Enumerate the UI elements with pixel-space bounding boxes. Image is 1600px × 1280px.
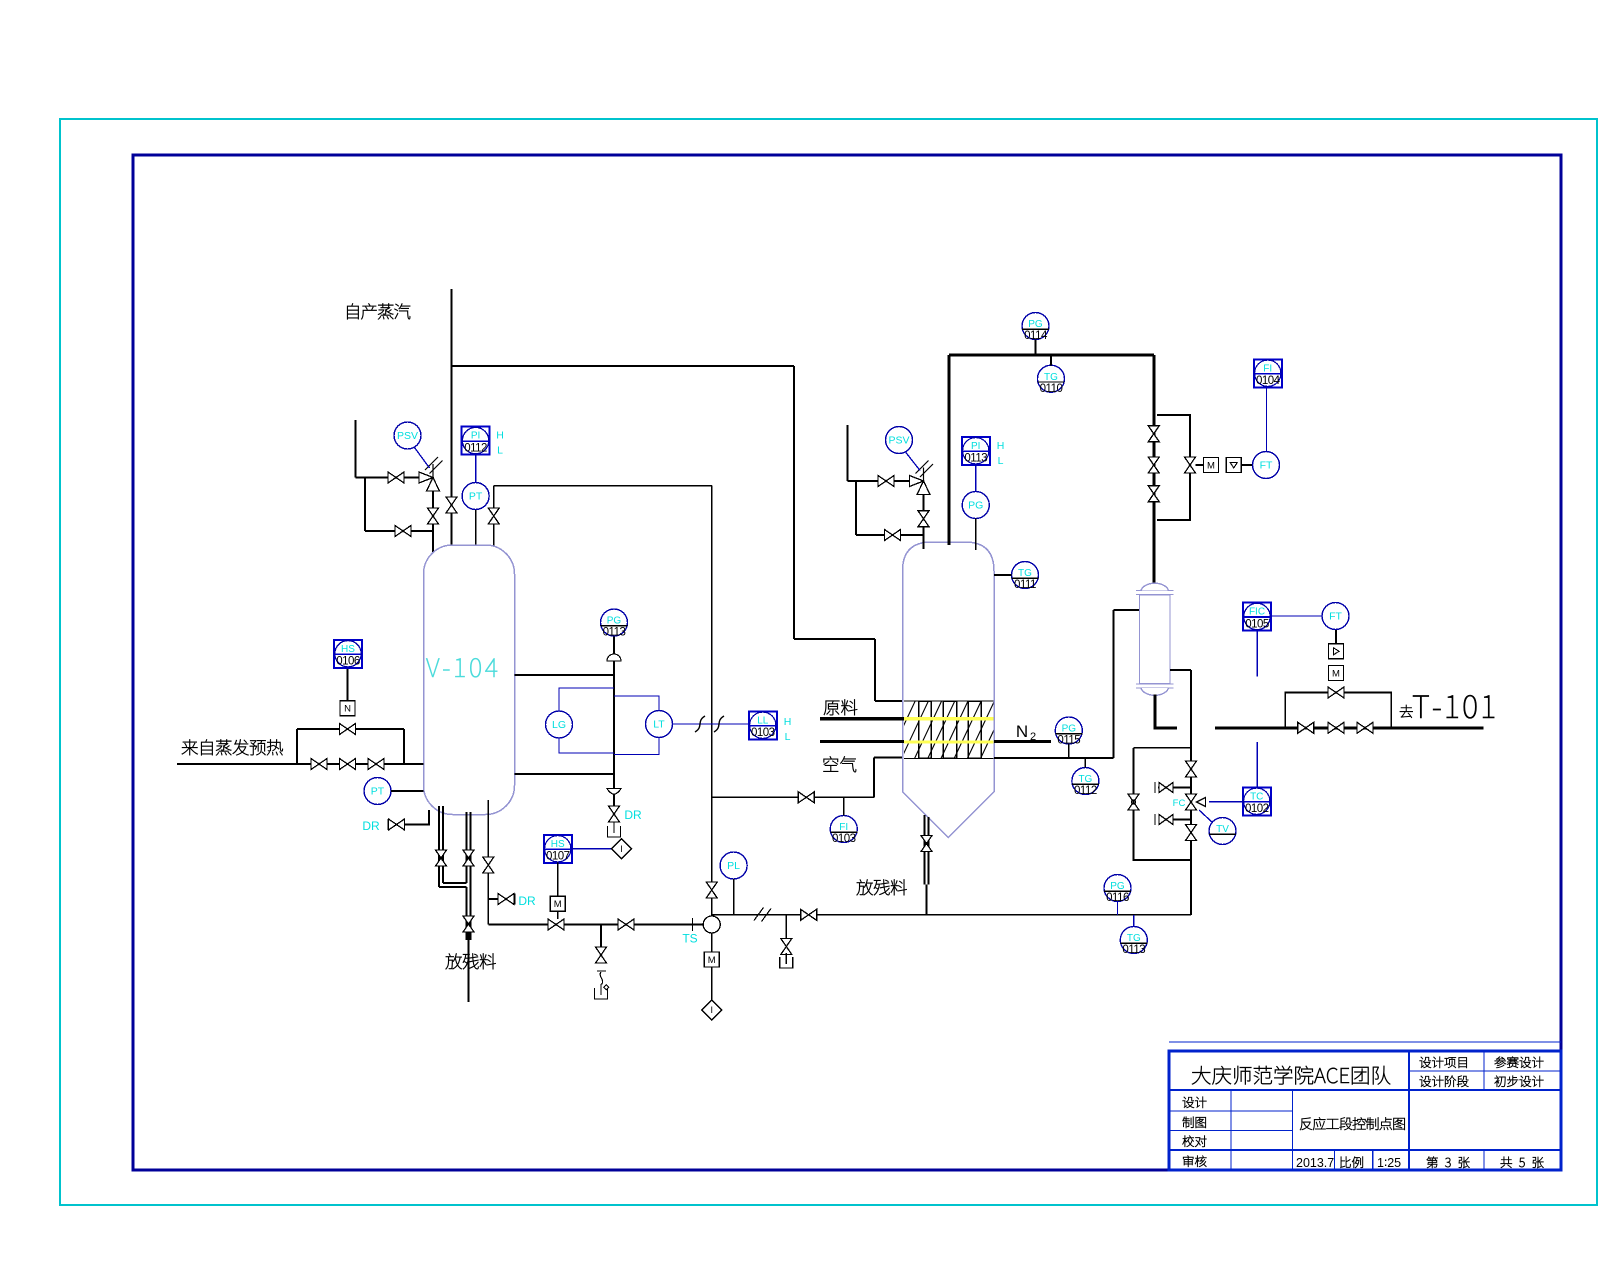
svg-text:0107: 0107: [546, 851, 570, 863]
actuator box M riser: [1204, 458, 1219, 473]
wire PG nozzle: [975, 519, 977, 551]
valve nozzle x493: [488, 508, 499, 524]
svg-text:L: L: [497, 445, 503, 457]
interlock diamond I: [612, 839, 632, 859]
wire manifold bypass: [1134, 748, 1192, 860]
wire PG-0116 stem: [1117, 902, 1119, 915]
instrument LG: [546, 711, 573, 738]
label 设计项目: [1420, 1057, 1431, 1068]
svg-text:FT: FT: [1329, 611, 1342, 623]
svg-text:0103: 0103: [751, 727, 775, 739]
wire PSV2 bypass left drop: [855, 481, 857, 535]
svg-text:0111: 0111: [1014, 579, 1036, 591]
svg-text:0103: 0103: [832, 833, 856, 845]
condenser bottom dome: [1141, 688, 1169, 695]
instrument TV: [1209, 818, 1236, 845]
signal break 1: [695, 716, 705, 732]
wire PSV2 bypass bottom: [856, 534, 924, 536]
valve bottom pipe 3: [483, 857, 494, 873]
valve sample branch: [596, 947, 607, 963]
instrument box HS-0106: [334, 640, 362, 668]
wire M to valve: [557, 911, 559, 919]
valve feed 2: [340, 759, 356, 770]
svg-text:L: L: [785, 731, 791, 743]
actuator box N: [340, 701, 355, 716]
svg-text:PG: PG: [607, 616, 622, 627]
label 放残料 right: [857, 879, 873, 895]
svg-text:PT: PT: [469, 491, 483, 503]
wire HS-0106 to N box: [347, 668, 349, 702]
label 设计阶段: [1420, 1076, 1431, 1087]
condenser bottom flange: [1136, 683, 1174, 685]
instrument box HS-0107: [544, 835, 572, 863]
gauge glass LG loop: [559, 688, 614, 711]
valve feed 3: [368, 759, 384, 770]
instrument PG-0113: [601, 609, 628, 639]
exchanger tube 1: [919, 701, 932, 758]
svg-text:FT: FT: [1260, 460, 1273, 472]
svg-text:TG: TG: [1078, 774, 1092, 785]
svg-text:0113: 0113: [1122, 944, 1145, 956]
signal FI-0104 to FT: [1266, 387, 1268, 451]
valve feed 1: [311, 759, 327, 770]
wire PSV1 bypass bottom: [365, 530, 433, 532]
vessel2 cone discharge pipe: [924, 815, 926, 885]
title block vertical divider x1484 bottom: [1483, 1150, 1485, 1170]
valve feed bypass N-actuated: [340, 724, 356, 735]
svg-text:0112: 0112: [1074, 785, 1097, 797]
wire steam into exchanger y701: [875, 700, 904, 702]
title block divider x1334: [1334, 1150, 1336, 1170]
svg-text:DR: DR: [362, 819, 380, 833]
nitrogen line thick: [994, 740, 1051, 743]
valve bottom pipe 1: [436, 850, 447, 866]
instrument LT: [646, 711, 673, 738]
wire PSV2 inlet y481: [848, 480, 917, 482]
wire DR drain elbow: [405, 810, 429, 825]
svg-text:0110: 0110: [1040, 383, 1063, 395]
valve on main drop above TS: [706, 882, 717, 898]
wire riser to condenser inlet: [1113, 610, 1115, 758]
wire branch y797: [712, 796, 874, 798]
valve PSV2 bypass: [885, 530, 901, 541]
valve DR with cap: [389, 819, 405, 830]
wire PG-0114 stem: [1035, 340, 1037, 356]
valve riser 2: [1148, 457, 1159, 473]
steam trap TS circle: [703, 916, 720, 933]
svg-text:FC: FC: [1173, 798, 1186, 809]
svg-text:TG: TG: [1127, 933, 1141, 944]
product line thick: [1215, 726, 1484, 729]
condenser outlet thick: [1155, 695, 1177, 728]
wire TG-0110 stem: [1050, 355, 1052, 365]
title block divider x1372: [1372, 1150, 1374, 1170]
svg-text:PG: PG: [968, 500, 983, 512]
diaphragm seal under PG-0113: [607, 654, 621, 661]
exchanger tube 3: [968, 701, 981, 758]
label 去: [1400, 705, 1413, 718]
title block vertical divider x1484 top: [1483, 1051, 1485, 1090]
signal LT to LL-0102: [673, 723, 750, 725]
title block outer frame: [1169, 1051, 1561, 1170]
svg-text:0113: 0113: [603, 627, 626, 639]
svg-text:0102: 0102: [1245, 803, 1269, 815]
signal TC-0102 to valve: [1209, 801, 1243, 803]
label 第3张: [1427, 1157, 1438, 1168]
residue branch drop: [785, 915, 787, 939]
valve PSV2 inlet: [878, 476, 894, 487]
wire header y485 to drop: [494, 485, 712, 487]
yellow stream line 1: [904, 717, 994, 720]
instrument PSV 2: [886, 427, 913, 454]
svg-text:M: M: [1332, 668, 1340, 679]
interlock diamond I under TS: [702, 1000, 722, 1020]
signal PI-0113 to PG: [975, 465, 977, 492]
wire steam horizontal y639: [794, 638, 875, 640]
svg-text:2: 2: [1030, 731, 1036, 743]
svg-text:I: I: [620, 844, 623, 854]
wire steam drop x794: [793, 366, 795, 639]
label 共5张: [1501, 1157, 1512, 1168]
valve residue line: [801, 909, 817, 920]
valve bottom pipe 2 lower: [463, 916, 474, 932]
wire feed bypass top: [297, 728, 404, 730]
wire FT2 to transducer: [1335, 630, 1337, 644]
yellow stream line 2: [904, 740, 994, 743]
instrument box LL-0103: [749, 711, 777, 739]
wire FI-0103 stem: [843, 797, 845, 815]
label 放残料 left: [446, 953, 462, 969]
wire drain to valve: [613, 795, 615, 807]
instrument PT on V-104 top: [462, 483, 489, 510]
condenser top dome: [1141, 583, 1169, 590]
valve riser bypass: [1185, 457, 1196, 473]
instrument PG-0114: [1022, 313, 1049, 343]
signal PI-0112 to PT: [475, 455, 477, 483]
funnel LG drain: [608, 826, 621, 837]
actuator box M on bottom valve: [550, 896, 565, 911]
wire main drop x711: [711, 486, 713, 952]
svg-text:0106: 0106: [336, 656, 360, 668]
wire TG-0112 stem: [1084, 758, 1086, 768]
feed line 原料 thick: [820, 717, 904, 720]
instrument TG-0113: [1120, 927, 1147, 957]
wire feed line y764: [177, 763, 424, 765]
label 原料: [824, 701, 840, 716]
instrument FT 2: [1322, 603, 1349, 630]
wire V-104 bottom pipe 3: [487, 800, 489, 925]
line break marks: [754, 908, 771, 922]
instrument PG-0116: [1104, 875, 1131, 905]
svg-text:HS: HS: [341, 644, 355, 655]
drawing title 反应工段控制点图: [1300, 1118, 1312, 1130]
svg-text:M: M: [554, 899, 562, 910]
signal PSV2 to valve: [906, 452, 921, 471]
svg-text:DR: DR: [624, 808, 642, 822]
wire level glass column x614: [613, 675, 615, 789]
wire into exchanger y757: [874, 757, 904, 759]
wire nozzle x493: [493, 486, 495, 551]
transducer box above M: [1329, 644, 1344, 659]
svg-text:TV: TV: [1216, 824, 1229, 835]
valve product 3: [1357, 722, 1373, 733]
wire riser bypass: [1157, 415, 1190, 520]
condenser body: [1140, 595, 1171, 684]
svg-text:N: N: [1016, 722, 1028, 741]
svg-text:TG: TG: [1044, 372, 1058, 383]
wire HS-0107 to diamond: [572, 848, 612, 850]
exchanger hatch: [875, 701, 1008, 758]
svg-text:M: M: [708, 955, 716, 966]
valve residue branch: [781, 939, 792, 955]
svg-text:HS: HS: [551, 839, 565, 850]
steam downcomer thick into vessel2: [947, 355, 950, 545]
valve riser 3: [1148, 486, 1159, 502]
valve PSV1 bypass: [395, 526, 411, 537]
valve product 1: [1298, 722, 1314, 733]
valve on y797: [798, 792, 814, 803]
svg-text:0112: 0112: [464, 442, 487, 454]
exchanger bottom line: [904, 757, 994, 759]
product bypass: [1285, 693, 1391, 728]
tick before TS: [692, 918, 694, 931]
instrument FI-0103: [830, 816, 857, 846]
instrument box PI-0113: [962, 437, 990, 465]
label 设计: [1183, 1097, 1194, 1108]
steam header thick: [949, 354, 1154, 357]
valve DR branch with cap: [498, 894, 514, 905]
instrument PG-0115: [1055, 717, 1082, 747]
svg-text:0104: 0104: [1256, 375, 1281, 387]
svg-text:DR: DR: [518, 894, 536, 908]
sample branch drop: [600, 925, 602, 948]
wire condenser inlet y610: [1114, 609, 1140, 611]
pipe V-104 bottom double line 2: [466, 812, 468, 883]
title block row line y1130: [1169, 1130, 1293, 1132]
inner navy drawing border: [133, 155, 1561, 1170]
reducer on drain: [607, 789, 621, 795]
svg-text:PT: PT: [371, 786, 385, 798]
relief valve PSV2 angle body: [910, 461, 934, 495]
instrument box FIC-0105: [1243, 603, 1271, 631]
valve product 2: [1328, 722, 1344, 733]
valve bottom line 2: [618, 919, 634, 930]
residue line right y914.8: [712, 914, 1191, 916]
vessel V-104: [424, 545, 515, 815]
wire riser x874: [873, 758, 875, 798]
svg-text:PL: PL: [727, 860, 740, 872]
svg-text:M: M: [1207, 460, 1215, 471]
label 空气: [823, 756, 838, 771]
funnel sample point: [595, 988, 608, 999]
actuator M on bypass valve: [1329, 666, 1344, 681]
instrument TG-0110: [1038, 365, 1065, 395]
valve cone discharge: [921, 836, 932, 852]
exchanger top line: [904, 700, 994, 702]
title block horizontal divider y1150: [1169, 1149, 1561, 1151]
svg-text:FI: FI: [1263, 363, 1272, 374]
condenser side outlet y670: [1170, 669, 1191, 671]
instrument TG-0112: [1072, 768, 1099, 798]
instrument TG-0111: [1012, 562, 1039, 592]
instrument box PI-0112: [462, 427, 490, 455]
wire M to diamond: [711, 967, 713, 1001]
title block top thin line: [1169, 1041, 1561, 1043]
pipe V-104 bottom double line 1: [438, 806, 440, 887]
svg-text:2013.7: 2013.7: [1296, 1156, 1334, 1170]
title block divider 设计项目/设计阶段: [1409, 1070, 1561, 1072]
label V-104: [426, 658, 439, 677]
wire PT to V-104 shell: [391, 790, 424, 792]
wire feed bypass right riser: [403, 729, 405, 764]
sample point bar and hose: [597, 970, 606, 972]
wire bypass valve to M box: [1196, 464, 1204, 466]
svg-text:TC: TC: [1250, 791, 1263, 802]
label 比例: [1341, 1157, 1351, 1168]
valve bottom pipe 2 upper: [463, 850, 474, 866]
svg-text:1∶25: 1∶25: [1377, 1156, 1401, 1170]
wire V-104 top vapor line y675: [515, 674, 615, 676]
svg-text:0105: 0105: [1245, 618, 1269, 630]
svg-text:PSV: PSV: [397, 430, 418, 442]
instrument box TC-0102: [1243, 787, 1271, 815]
svg-text:I: I: [710, 1005, 713, 1015]
title block row line y1111: [1169, 1110, 1293, 1112]
wire PSV1 bypass left drop: [364, 478, 366, 532]
control valve FC: [1186, 794, 1197, 810]
title block vertical divider x1409: [1408, 1051, 1410, 1170]
actuator box M under TS: [704, 952, 719, 967]
wire steam riser from V-104 top: [451, 289, 453, 548]
exchanger tube 2: [943, 701, 957, 758]
valve M-actuated on bottom line: [548, 919, 564, 930]
wire vessel2 outlet y758: [994, 757, 1114, 759]
svg-text:TS: TS: [682, 932, 697, 946]
valve PSV1 outlet: [428, 508, 439, 524]
svg-text:0113: 0113: [964, 453, 987, 465]
instrument PT at V-104 shell: [364, 778, 391, 805]
valve riser 1: [1148, 426, 1159, 442]
signal PSV1 to valve: [415, 448, 430, 469]
pipe elbow to pipe2: [443, 882, 467, 884]
svg-text:H: H: [496, 430, 504, 442]
wire PSV1 outlet drop: [432, 484, 434, 553]
svg-text:N: N: [344, 704, 351, 715]
valve PSV1 inlet: [388, 472, 404, 483]
wire to FT: [1241, 464, 1252, 466]
title 大庆师范学院ACE团队: [1192, 1066, 1210, 1084]
condenser top flange: [1136, 590, 1174, 592]
signal break 2: [714, 716, 724, 732]
instrument box FI-0104: [1254, 359, 1282, 387]
signal FIC-0105 dangling down: [1256, 631, 1258, 677]
signal FIC-0105 to FT: [1271, 615, 1322, 617]
label 制图: [1183, 1117, 1194, 1128]
label 校对: [1183, 1136, 1194, 1147]
valve manifold top: [1186, 761, 1197, 777]
pipe discharge single below valve: [468, 932, 470, 1002]
instrument PL: [720, 852, 747, 879]
purge valve lower with cap: [1159, 815, 1173, 825]
purge valve upper with cap: [1159, 783, 1173, 793]
valve manifold bypass globe: [1128, 794, 1139, 810]
riser thick to condenser: [1152, 355, 1155, 585]
instrument PG on vessel2: [962, 492, 989, 519]
title block vertical divider x1292: [1292, 1090, 1294, 1170]
label 初步设计: [1495, 1076, 1506, 1087]
wire PL stem: [733, 879, 735, 915]
signal valve to TV: [1199, 810, 1213, 823]
level transmitter LT loop: [614, 696, 659, 711]
wire PSV2 outlet drop: [923, 488, 925, 550]
svg-text:PG: PG: [1062, 724, 1077, 735]
wire feed bypass left riser: [296, 729, 298, 764]
relief valve PSV1 angle body: [419, 457, 443, 491]
feed line 空气 thick: [820, 740, 904, 743]
signal TC-0102 dangling up: [1256, 742, 1258, 787]
wire PSV1 vent stub: [355, 420, 357, 478]
svg-text:H: H: [784, 716, 792, 728]
wire purge upper stub: [1158, 787, 1159, 789]
valve LG drain: [609, 806, 620, 822]
label 来自蒸发预热: [182, 739, 198, 755]
wire PG-0115 stem: [1068, 744, 1070, 758]
wire TG-0111 to vessel: [994, 574, 1012, 576]
svg-text:L: L: [998, 455, 1004, 467]
wire DR branch right: [488, 898, 497, 900]
valve product bypass M: [1328, 687, 1344, 698]
wire PT1 nozzle: [475, 510, 477, 548]
svg-text:FI: FI: [839, 822, 848, 833]
wire V-104 lower tap y774: [515, 773, 615, 775]
svg-text:TG: TG: [1018, 568, 1032, 579]
valve PSV2 outlet: [918, 511, 929, 527]
funnel residue branch: [780, 957, 793, 968]
wire TG-0113 stem: [1133, 915, 1135, 927]
wire bottom main line y924: [488, 924, 703, 926]
label 自产蒸汽: [347, 303, 358, 319]
label 参赛设计: [1495, 1057, 1506, 1068]
valve steam riser root: [446, 497, 457, 513]
title block horizontal divider y1090: [1169, 1089, 1561, 1091]
transducer box on riser: [1226, 458, 1241, 473]
svg-text:FIC: FIC: [1249, 607, 1265, 618]
wire PSV1 inlet y477: [356, 477, 427, 479]
svg-text:LT: LT: [653, 719, 665, 731]
vessel R-101 body: [903, 542, 995, 838]
wire PSV2 vent stub: [847, 425, 849, 481]
svg-text:PG: PG: [1110, 881, 1125, 892]
svg-text:PI: PI: [971, 441, 980, 452]
valve manifold bottom: [1186, 825, 1197, 841]
svg-text:LL: LL: [757, 715, 769, 726]
wire manifold drop x1191: [1190, 670, 1192, 915]
title block vertical divider x1231: [1230, 1090, 1232, 1170]
wire steam drop x875: [874, 639, 876, 701]
svg-text:LG: LG: [552, 719, 566, 731]
wire HS-0107 to M box: [557, 863, 559, 897]
instrument FT top: [1253, 452, 1280, 479]
svg-text:PI: PI: [471, 431, 480, 442]
svg-text:PSV: PSV: [888, 435, 909, 447]
instrument PSV (V-104): [394, 422, 421, 449]
label T-101: [1413, 695, 1429, 718]
svg-text:PG: PG: [1028, 319, 1043, 330]
svg-text:H: H: [997, 440, 1005, 452]
wire steam branch horizontal: [452, 365, 795, 367]
wire PG-0113 stem: [613, 636, 615, 675]
label 审核: [1183, 1156, 1193, 1167]
